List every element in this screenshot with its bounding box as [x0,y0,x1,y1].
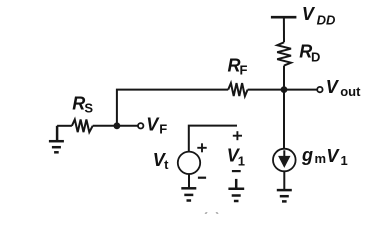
ground (under current source) [277,190,292,201]
svg-text:V: V [326,77,340,97]
polarity plus (Vt) [197,143,206,152]
svg-text:m: m [315,151,327,166]
polarity minus (V1) [232,170,241,172]
polarity plus (V1) [233,131,242,140]
svg-text:F: F [159,121,167,136]
svg-text:F: F [240,63,248,78]
svg-text:(a): (a) [203,209,220,214]
node VF junction dot [114,122,121,129]
wire Vt to ground [188,174,190,187]
polarity minus (Vt) [198,177,206,179]
svg-text:S: S [84,101,93,116]
wire output node to current source [283,90,285,149]
ground (under Vt) [181,188,196,200]
node output junction dot [281,86,288,93]
svg-text:V: V [146,114,160,134]
VDD supply bar [271,16,297,19]
resistor RF [228,83,247,96]
wire current source to ground [283,171,285,189]
wire RF to output node [248,89,284,91]
ground (V1 reference) [228,179,244,201]
voltage source Vt circle [178,152,200,174]
resistor RS [72,120,93,133]
wire RD to output node [283,66,285,90]
ground (left, at RS) [49,126,64,153]
svg-text:t: t [164,157,169,172]
svg-text:1: 1 [238,154,245,169]
svg-text:V: V [302,4,316,24]
svg-text:V: V [326,146,340,166]
wire VF corner to RF (top horizontal) [117,90,228,126]
svg-text:g: g [301,145,313,165]
current source gmV1 circle [273,149,296,172]
terminal VF open circle [138,123,143,128]
wire output node to Vout terminal [284,89,317,91]
svg-text:D: D [311,49,320,64]
terminal Vout open circle [317,87,322,92]
current source arrow [283,150,285,157]
resistor RD [277,42,291,65]
wire RS to VF node [93,125,138,127]
wire ground to RS [57,125,72,127]
svg-text:DD: DD [317,12,336,27]
wire VDD bar to RD [283,17,285,42]
svg-text:R: R [72,94,85,114]
svg-text:out: out [340,84,361,99]
svg-text:1: 1 [341,153,348,168]
wire Vt up and right to V1 plus node [189,126,237,152]
